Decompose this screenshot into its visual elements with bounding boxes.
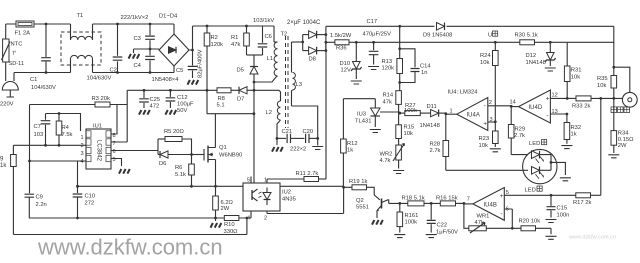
label U-chg bbox=[488, 31, 498, 39]
capacitor C5 (82uF/400V) bbox=[176, 49, 204, 85]
wire R17 riser bbox=[600, 98, 602, 195]
resistor R31 10k bbox=[564, 42, 581, 100]
resistor R13 120k bbox=[382, 26, 403, 90]
svg-text:T2: T2 bbox=[281, 32, 288, 38]
label IU4 LM324 bbox=[448, 90, 479, 96]
svg-text:2.2n: 2.2n bbox=[36, 202, 47, 208]
svg-text:R35: R35 bbox=[597, 76, 608, 82]
capacitor C15 100n bbox=[546, 195, 570, 222]
bridge rectifier D1~D4 bbox=[152, 14, 190, 84]
resistor R9b 6.2 2W bbox=[213, 186, 234, 219]
svg-text:222/1kV×2: 222/1kV×2 bbox=[121, 15, 149, 21]
svg-text:1k: 1k bbox=[0, 163, 7, 169]
svg-text:470μF/25V: 470μF/25V bbox=[363, 32, 392, 38]
wire IU4D pin12 bbox=[550, 97, 567, 99]
svg-text:R10: R10 bbox=[224, 222, 235, 228]
svg-text:IU4B: IU4B bbox=[484, 203, 497, 209]
wire pin5 to ground bbox=[111, 159, 122, 167]
wire AC top after T1 bbox=[93, 23, 175, 25]
svg-text:C7: C7 bbox=[34, 124, 41, 130]
svg-text:R5 20Ω: R5 20Ω bbox=[164, 129, 184, 135]
svg-text:C5: C5 bbox=[176, 68, 183, 74]
svg-text:R1: R1 bbox=[231, 35, 238, 41]
svg-text:1N4148: 1N4148 bbox=[420, 123, 440, 129]
wire output rail top bbox=[326, 25, 614, 28]
zener D12 1N4148 bbox=[526, 42, 556, 71]
svg-text:1: 1 bbox=[264, 178, 267, 184]
wire IU4A pin2 bbox=[488, 105, 513, 108]
resistor R27 100k bbox=[400, 103, 421, 115]
wire D8 node down (R11 supply) bbox=[325, 42, 327, 179]
svg-text:14: 14 bbox=[510, 100, 516, 106]
resistor R10 330 bbox=[224, 216, 239, 236]
svg-text:1k: 1k bbox=[347, 148, 353, 154]
svg-text:220V: 220V bbox=[0, 102, 14, 108]
wire gate bbox=[192, 154, 205, 156]
svg-text:D11: D11 bbox=[427, 104, 437, 110]
svg-text:R15: R15 bbox=[404, 125, 415, 131]
wire right rail down bbox=[612, 26, 615, 68]
svg-text:R20 10k: R20 10k bbox=[519, 219, 541, 225]
svg-text:2: 2 bbox=[489, 100, 492, 106]
wire Y-cap midpoint to bridge bbox=[134, 48, 160, 51]
svg-text:7: 7 bbox=[113, 141, 116, 147]
svg-text:10k: 10k bbox=[597, 83, 606, 89]
svg-text:50V: 50V bbox=[177, 108, 187, 114]
svg-text:R17 2k: R17 2k bbox=[573, 200, 591, 206]
svg-text:C1: C1 bbox=[30, 77, 37, 83]
svg-text:R30 5.1k: R30 5.1k bbox=[515, 33, 538, 39]
svg-text:R6: R6 bbox=[175, 165, 182, 171]
wire pin12 rail bbox=[567, 97, 623, 100]
svg-text:F1 2A: F1 2A bbox=[15, 31, 31, 37]
svg-text:1k: 1k bbox=[571, 132, 577, 138]
svg-text:U: U bbox=[488, 33, 492, 39]
svg-text:D1~D4: D1~D4 bbox=[159, 14, 178, 20]
wire collector rail bbox=[389, 202, 408, 205]
svg-text:C21: C21 bbox=[282, 129, 293, 135]
svg-text:D6: D6 bbox=[159, 161, 166, 167]
wire pin8 up bbox=[111, 105, 117, 135]
svg-text:2.7k: 2.7k bbox=[430, 148, 441, 154]
capacitor C21 222 bbox=[277, 129, 305, 143]
svg-text:W6NB90: W6NB90 bbox=[219, 153, 242, 159]
resistor R4 7.5k bbox=[56, 114, 72, 146]
svg-text:R8: R8 bbox=[218, 96, 225, 102]
svg-text:1N4148: 1N4148 bbox=[526, 60, 546, 66]
resistor R18 5.1k bbox=[402, 195, 441, 206]
capacitor C9 2.2n bbox=[25, 192, 47, 218]
capacitor C20 222 bbox=[290, 129, 319, 153]
fuse F1 bbox=[15, 21, 35, 37]
svg-text:-: - bbox=[500, 211, 502, 218]
svg-text:4.7k: 4.7k bbox=[380, 158, 391, 164]
op-amp IC IU1 LC3842 bbox=[81, 124, 116, 170]
svg-text:Q1: Q1 bbox=[219, 145, 227, 151]
svg-text:2×μF 1004C: 2×μF 1004C bbox=[287, 20, 321, 26]
svg-text:C6: C6 bbox=[265, 34, 272, 40]
svg-text:1N5408×4: 1N5408×4 bbox=[152, 77, 180, 83]
svg-text:C4: C4 bbox=[134, 63, 142, 69]
svg-text:R18 5.1k: R18 5.1k bbox=[402, 195, 425, 201]
svg-text:103/1kV: 103/1kV bbox=[253, 18, 274, 24]
wire IU4B out bbox=[464, 203, 473, 205]
svg-text:R29: R29 bbox=[515, 127, 526, 133]
svg-text:D12: D12 bbox=[526, 53, 537, 59]
op-amp IU4B bbox=[467, 188, 509, 221]
svg-text:R14: R14 bbox=[383, 93, 394, 99]
resistor R11 2.7k bbox=[267, 171, 326, 182]
svg-text:103: 103 bbox=[34, 132, 44, 138]
ground (source sense) bbox=[211, 218, 222, 228]
resistor R3 20k bbox=[92, 96, 111, 107]
svg-text:C17: C17 bbox=[367, 19, 378, 25]
wire to LED2 bbox=[446, 169, 528, 171]
svg-text:IU4A: IU4A bbox=[467, 113, 480, 119]
svg-text:www.dzkfw.com.cn: www.dzkfw.com.cn bbox=[37, 235, 223, 260]
resistor R34 0.15 2W bbox=[608, 98, 634, 157]
wire AC line bottom (N) bbox=[14, 73, 71, 82]
svg-text:R23: R23 bbox=[479, 136, 490, 142]
svg-text:5551: 5551 bbox=[356, 205, 369, 211]
svg-text:D7: D7 bbox=[237, 97, 244, 103]
ground (IU1 pin5) bbox=[119, 169, 130, 174]
svg-text:5.1: 5.1 bbox=[217, 103, 225, 109]
svg-text:R12: R12 bbox=[347, 141, 358, 147]
svg-text:R3 20k: R3 20k bbox=[92, 96, 110, 102]
resistor R23 10k bbox=[479, 122, 501, 152]
capacitor C12 100uF/50V bbox=[165, 90, 194, 114]
ground (C20 node) bbox=[312, 138, 323, 149]
wire drain node vertical bbox=[253, 74, 256, 183]
potentiometer WR2 4.7k bbox=[380, 144, 405, 174]
svg-text:10k: 10k bbox=[404, 131, 413, 137]
svg-text:2W: 2W bbox=[221, 206, 230, 212]
svg-text:222×2: 222×2 bbox=[290, 147, 306, 153]
wire AC line top (L) bbox=[6, 23, 71, 25]
label 222/1kV x2 bbox=[121, 15, 149, 21]
svg-text:IU1: IU1 bbox=[93, 124, 102, 130]
capacitor C25 472 bbox=[139, 90, 160, 114]
wire AC bottom after T1 bbox=[93, 72, 175, 74]
svg-text:104/630V: 104/630V bbox=[31, 85, 56, 91]
transistor Q2 5551 bbox=[356, 198, 389, 218]
wire VCC rail bbox=[127, 89, 217, 92]
svg-text:C2: C2 bbox=[110, 68, 117, 74]
svg-text:C9: C9 bbox=[36, 195, 43, 201]
svg-text:C3: C3 bbox=[134, 36, 141, 42]
svg-text:2: 2 bbox=[81, 143, 84, 149]
wire pin2 line bbox=[13, 144, 86, 147]
resistor R36 1.5k/2W bbox=[326, 33, 356, 52]
wire aux link bbox=[254, 90, 281, 101]
svg-text:1: 1 bbox=[450, 109, 453, 115]
wire bottom inner rail bbox=[29, 217, 248, 220]
svg-text:C10: C10 bbox=[85, 194, 96, 200]
wire drain horizontal bbox=[207, 112, 256, 115]
svg-text:R28: R28 bbox=[430, 142, 441, 148]
ground (L2 bottom) bbox=[272, 137, 283, 152]
svg-text:t°: t° bbox=[13, 51, 17, 57]
label 2x uF 100 bbox=[287, 20, 321, 26]
resistor R5 20ohm bbox=[158, 129, 192, 155]
resistor R17 2k bbox=[573, 193, 601, 206]
capacitor C7 103 bbox=[34, 114, 51, 146]
wire R2 to node bbox=[206, 90, 208, 113]
svg-text:LED: LED bbox=[529, 141, 540, 147]
wire R3 rail bbox=[30, 104, 128, 106]
wire IU4D out bbox=[511, 106, 518, 108]
svg-text:R34: R34 bbox=[618, 131, 629, 137]
wire LED common to ground bbox=[551, 162, 571, 180]
svg-text:5: 5 bbox=[247, 178, 250, 184]
transformer T2 core bbox=[281, 32, 289, 129]
svg-text:D10: D10 bbox=[340, 61, 351, 67]
svg-text:R4: R4 bbox=[62, 125, 70, 131]
diode D8 (dual) upper bbox=[303, 31, 328, 51]
svg-text:R2: R2 bbox=[211, 35, 218, 41]
capacitor C6 103/1kV bbox=[253, 18, 274, 55]
svg-text:+: + bbox=[546, 96, 550, 103]
svg-text:LC3842: LC3842 bbox=[96, 140, 102, 162]
wire pin6 stub bbox=[504, 209, 513, 230]
svg-text:-: - bbox=[484, 103, 486, 110]
svg-text:C12: C12 bbox=[177, 95, 188, 101]
wire U-chg rail bbox=[355, 41, 614, 44]
svg-text:1n: 1n bbox=[421, 70, 427, 76]
svg-text:100k: 100k bbox=[405, 220, 418, 226]
wire VCC drop to pin7 bbox=[111, 90, 127, 142]
svg-text:R32: R32 bbox=[571, 125, 582, 131]
svg-text:1.5k/2W: 1.5k/2W bbox=[330, 33, 352, 39]
svg-text:+: + bbox=[500, 193, 504, 200]
svg-text:R33 2k: R33 2k bbox=[572, 104, 590, 110]
wire HV rail to L1 bbox=[273, 26, 275, 42]
svg-text:www.dzkfw.com.cn: www.dzkfw.com.cn bbox=[568, 235, 616, 241]
svg-text:2W: 2W bbox=[618, 143, 627, 149]
svg-text:C14: C14 bbox=[420, 64, 431, 70]
capacitor C2 bbox=[87, 23, 123, 82]
wire IU2 pin2 link bbox=[267, 186, 345, 214]
svg-text:10k: 10k bbox=[480, 60, 489, 66]
svg-text:WR2: WR2 bbox=[380, 152, 393, 158]
svg-text:WR1: WR1 bbox=[477, 214, 490, 220]
svg-text:5.1k: 5.1k bbox=[175, 172, 186, 178]
resistor R32 1k bbox=[561, 114, 581, 149]
capacitor C4 bbox=[134, 49, 155, 74]
op-amp IU4A bbox=[450, 98, 493, 131]
svg-text:R13: R13 bbox=[382, 59, 393, 65]
wire feedback loop bbox=[464, 204, 469, 228]
resistor R35 10k bbox=[597, 67, 617, 98]
svg-text:C20: C20 bbox=[303, 129, 314, 135]
ground (Y-cap midpoint) bbox=[129, 49, 140, 59]
svg-text:L1: L1 bbox=[267, 56, 273, 62]
svg-text:-: - bbox=[546, 113, 548, 120]
svg-text:7.5k: 7.5k bbox=[62, 132, 73, 138]
optocoupler IU2 4N35 bbox=[243, 177, 296, 222]
transistor Q1 W6NB90 bbox=[204, 145, 242, 163]
resistor R15 10k bbox=[396, 113, 414, 145]
wire IU4A out bbox=[446, 113, 457, 115]
inductor L1 (primary) bbox=[267, 42, 278, 77]
wire snubber bottom bar bbox=[247, 55, 263, 67]
resistor R33 2k bbox=[572, 96, 591, 110]
shunt regulator IU3 TL431 bbox=[343, 99, 401, 133]
svg-text:R161: R161 bbox=[405, 213, 419, 219]
svg-text:L2: L2 bbox=[266, 110, 272, 116]
svg-text:120k: 120k bbox=[211, 42, 224, 48]
svg-text:82μF/400V: 82μF/400V bbox=[198, 49, 204, 78]
resistor R161 100k bbox=[394, 203, 418, 237]
wire pin5 line bbox=[504, 194, 576, 197]
watermark bbox=[37, 235, 616, 260]
svg-text:2.7k: 2.7k bbox=[514, 133, 525, 139]
svg-text:IU3: IU3 bbox=[357, 112, 366, 118]
svg-text:R24: R24 bbox=[480, 53, 491, 59]
charging socket bbox=[611, 92, 637, 112]
resistor R20 10k bbox=[519, 219, 557, 240]
wire feedback line y186 bbox=[76, 185, 344, 188]
wire secondary top bbox=[292, 41, 305, 44]
svg-text:3: 3 bbox=[81, 151, 84, 157]
diode D8 (dual) lower bbox=[303, 47, 328, 63]
LED indicator pair (LED red/green) bbox=[523, 140, 557, 194]
wire bridge + output bbox=[189, 26, 274, 50]
resistor R24 10k bbox=[480, 42, 498, 122]
svg-text:Q2: Q2 bbox=[356, 198, 364, 204]
diode D6 bbox=[158, 151, 193, 167]
svg-text:104/630V: 104/630V bbox=[87, 76, 112, 82]
wire Q1 source bbox=[214, 160, 217, 188]
wire R19 feed bbox=[344, 186, 352, 188]
svg-text:C25: C25 bbox=[150, 97, 161, 103]
svg-text:47k: 47k bbox=[231, 42, 240, 48]
svg-text:R31: R31 bbox=[571, 68, 582, 74]
wire left branch x29.5 bbox=[28, 105, 31, 193]
diode D5 bbox=[237, 67, 259, 75]
wire L1 bottom link bbox=[254, 77, 276, 82]
svg-text:4N35: 4N35 bbox=[282, 197, 296, 203]
resistor R12 1k bbox=[341, 99, 358, 188]
NTC thermistor RT1 bbox=[2, 24, 24, 81]
wire C7/R4 top bbox=[46, 112, 81, 131]
svg-text:L3: L3 bbox=[296, 82, 302, 88]
svg-text:120k: 120k bbox=[382, 66, 395, 72]
wire Q1 drain bbox=[214, 114, 216, 148]
wire pin4 line bbox=[30, 160, 87, 162]
capacitor C10 272 bbox=[73, 161, 95, 218]
svg-text:4: 4 bbox=[81, 159, 84, 165]
wire to LED1 bbox=[511, 154, 528, 156]
svg-text:272: 272 bbox=[85, 201, 95, 207]
resistor R9 5.1k bbox=[0, 145, 16, 234]
svg-text:2: 2 bbox=[264, 216, 267, 222]
svg-text:8: 8 bbox=[113, 133, 116, 139]
wire L3 bottom to C20 node bbox=[292, 106, 318, 138]
svg-text:LED: LED bbox=[525, 188, 536, 194]
svg-text:SD-11: SD-11 bbox=[9, 61, 24, 67]
wire IU4D pin13 bbox=[550, 113, 568, 116]
svg-text:472: 472 bbox=[150, 104, 160, 110]
svg-text:IU4D: IU4D bbox=[529, 105, 543, 111]
svg-text:100k: 100k bbox=[404, 108, 417, 114]
svg-text:0.15Ω: 0.15Ω bbox=[618, 137, 634, 143]
diode D9 1N5408 bbox=[423, 21, 452, 39]
resistor R28 2.7k bbox=[430, 114, 449, 171]
svg-text:1: 1 bbox=[81, 135, 84, 141]
resistor R30 5.1k bbox=[515, 33, 538, 45]
wire pin6 gate drive bbox=[111, 139, 158, 155]
capacitor C14 1n bbox=[400, 49, 432, 83]
resistor R16 15k bbox=[436, 195, 465, 206]
resistor R2 120k bbox=[204, 25, 223, 91]
resistor R29 2.7k bbox=[508, 106, 525, 154]
svg-text:47k: 47k bbox=[383, 100, 392, 106]
resistor R6 5.1k bbox=[175, 155, 194, 187]
wire D8 output node bbox=[325, 26, 328, 50]
svg-text:47k: 47k bbox=[475, 220, 484, 226]
svg-text:1μF/50V: 1μF/50V bbox=[436, 230, 458, 236]
inductor L2 (aux winding) bbox=[266, 101, 281, 138]
svg-text:T1: T1 bbox=[77, 13, 84, 19]
svg-text:12: 12 bbox=[552, 93, 558, 99]
svg-text:D9 1N5408: D9 1N5408 bbox=[423, 33, 452, 39]
resistor R19 1k bbox=[349, 179, 380, 200]
potentiometer WR1 4.7k bbox=[469, 214, 521, 234]
inductor L3 (secondary) bbox=[292, 42, 302, 106]
svg-text:NTC: NTC bbox=[11, 42, 23, 48]
svg-text:C15: C15 bbox=[557, 206, 568, 212]
capacitor C17 470uF/25V bbox=[363, 19, 392, 70]
capacitor C3 bbox=[134, 23, 155, 49]
svg-text:IU2: IU2 bbox=[282, 190, 291, 196]
svg-text:100μF: 100μF bbox=[177, 102, 194, 108]
resistor R1 47k bbox=[231, 25, 249, 55]
diode D7 bbox=[237, 87, 254, 103]
resistor R14 47k bbox=[383, 91, 402, 115]
zener D10 12V bbox=[340, 42, 362, 84]
resistor R8 5.1 bbox=[217, 88, 240, 109]
svg-text:R16 15k: R16 15k bbox=[436, 195, 458, 201]
op-amp IU4D bbox=[510, 90, 558, 123]
svg-text:10k: 10k bbox=[479, 143, 488, 149]
svg-text:IU4: LM324: IU4: LM324 bbox=[448, 90, 479, 96]
ground (Q2 emitter) bbox=[372, 220, 383, 225]
svg-text:10k: 10k bbox=[571, 75, 580, 81]
svg-text:R36: R36 bbox=[336, 46, 347, 52]
svg-text:D8: D8 bbox=[309, 57, 316, 63]
wire IU2 pin4 down bbox=[247, 217, 251, 219]
svg-text:100n: 100n bbox=[557, 213, 570, 219]
wire box bottom bbox=[13, 218, 247, 235]
capacitor C22 1uF/50V bbox=[426, 203, 458, 237]
svg-text:R19 1k: R19 1k bbox=[349, 179, 367, 185]
svg-text:R11 2.7k: R11 2.7k bbox=[296, 171, 319, 177]
svg-text:C22: C22 bbox=[437, 223, 448, 229]
AC plug bbox=[0, 82, 18, 108]
transformer T1 (common-mode choke) bbox=[61, 13, 101, 73]
svg-text:+: + bbox=[483, 121, 487, 128]
diode D11 1N4148 bbox=[420, 104, 448, 129]
svg-text:12V: 12V bbox=[341, 68, 351, 74]
svg-text:7: 7 bbox=[467, 197, 470, 203]
svg-text:D5: D5 bbox=[237, 68, 244, 74]
capacitor C1 bbox=[30, 23, 56, 91]
wire IU4A pin3 bbox=[488, 120, 497, 123]
svg-text:TL431: TL431 bbox=[355, 119, 371, 125]
wire to socket shell bbox=[614, 67, 630, 92]
